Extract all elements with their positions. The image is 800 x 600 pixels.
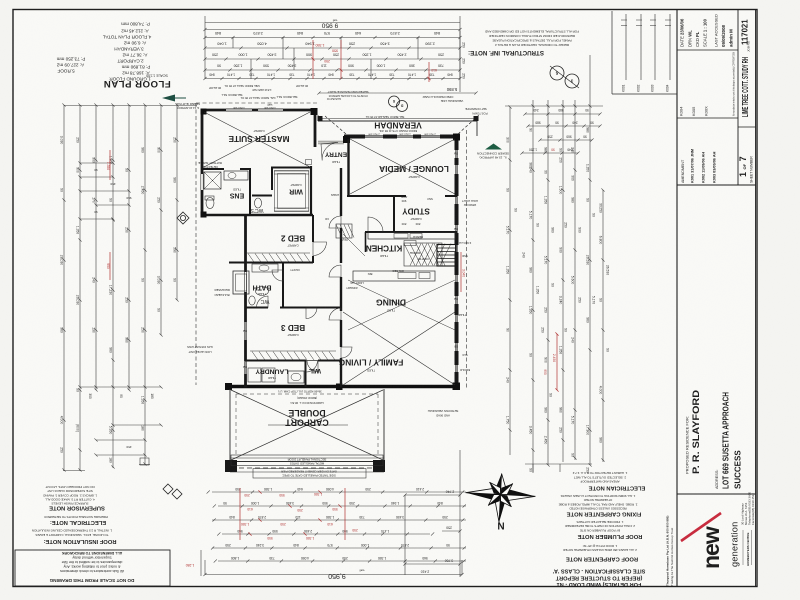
kitchen island	[353, 271, 435, 281]
divider above logo section	[677, 493, 756, 495]
gate band rects	[231, 455, 383, 466]
hall east wall lower	[340, 358, 342, 387]
bath east wall	[282, 262, 284, 308]
top dimension block	[203, 16, 477, 95]
master suite north wall	[201, 109, 227, 112]
carport inner dashed	[236, 393, 378, 395]
divider above sheet number	[738, 126, 756, 128]
divider under amendments	[677, 184, 756, 186]
wir west wall	[271, 168, 273, 190]
diamond pair bottom left	[163, 484, 182, 499]
verandah posts	[318, 116, 323, 121]
detail bubble SD near verandah	[389, 96, 408, 112]
green sewer arrow left	[162, 95, 175, 102]
areas legend (upside-down text block)	[102, 21, 151, 81]
wir east wall	[310, 166, 312, 215]
lounge west wall	[347, 139, 349, 197]
bed2 south wall / robe	[229, 262, 313, 264]
bath tub	[233, 271, 249, 294]
west wall windows	[243, 322, 245, 340]
driveway edges	[230, 471, 384, 473]
wc s toilet	[255, 198, 262, 208]
south wall	[227, 385, 459, 389]
ens wc	[206, 198, 214, 209]
bath basin	[256, 287, 269, 296]
hall east wall mid	[340, 228, 342, 263]
right dimension block	[403, 55, 609, 577]
revision scale table left of title block	[611, 11, 613, 94]
bed2 east wall	[312, 215, 314, 242]
lounge front windows	[365, 134, 383, 136]
entry door arc	[321, 142, 339, 160]
bed3 south wall	[245, 360, 306, 362]
bath vanity	[252, 264, 278, 272]
wir shelves	[274, 170, 309, 172]
wc toilet	[249, 296, 255, 305]
hall east wall upper	[340, 168, 342, 216]
carport X brace	[231, 390, 383, 460]
divider under K00x row	[677, 117, 738, 119]
bottom dimension block	[203, 487, 466, 579]
entry D symbol	[306, 160, 312, 165]
detail bubbles right of structural note	[550, 66, 579, 88]
entry door sill	[318, 140, 344, 142]
left dimension block	[60, 103, 201, 576]
compass rose	[464, 472, 536, 525]
green sewer triangle	[485, 144, 502, 150]
bottom-right small dim block	[459, 450, 461, 577]
laundry trough	[288, 371, 304, 383]
study west wall	[393, 196, 395, 233]
master block south wall	[201, 214, 313, 217]
carport outline	[229, 389, 231, 462]
entry east wall	[314, 110, 317, 147]
wc s walls	[252, 195, 272, 197]
bath south wall	[245, 307, 268, 309]
corner pantry hatch	[404, 243, 442, 266]
kitchen fridge recess	[404, 241, 416, 246]
red right	[556, 334, 558, 390]
ens west window	[200, 174, 202, 190]
diamond symbol left	[177, 212, 189, 224]
bed3 robe band	[250, 350, 336, 352]
title block inner column line	[737, 10, 739, 186]
verandah hip dashes	[458, 115, 479, 134]
verandah sub-dims top right	[525, 113, 600, 115]
carport ridge	[268, 424, 348, 426]
gate dashed line	[239, 467, 372, 469]
laundry appliance	[248, 368, 261, 382]
east wall windows	[454, 150, 456, 158]
bed2 robe band	[246, 252, 310, 254]
pantry shelf unit dark	[437, 245, 456, 267]
kitchen west stub	[365, 232, 367, 252]
wir rect	[275, 171, 309, 212]
verandah beam	[318, 120, 477, 122]
kitchen bench top	[368, 233, 455, 240]
linen closet hatch	[336, 224, 352, 238]
ens vanity	[224, 171, 248, 180]
master suite west wall	[201, 109, 204, 175]
title block left border	[676, 10, 678, 587]
bath west window	[243, 272, 245, 292]
carport piers	[225, 460, 237, 472]
ens east wall	[249, 169, 251, 214]
new generation logo red slash	[681, 513, 721, 541]
laundry/wil divider	[305, 360, 307, 387]
ens north wall	[203, 168, 224, 170]
east wall piers	[455, 135, 459, 151]
study-kitchen door arc	[368, 217, 383, 232]
lounge front wall piers	[344, 135, 365, 139]
dining diagonals	[348, 280, 455, 330]
title block right inner line	[755, 10, 757, 587]
kitchen north wall	[365, 231, 457, 233]
divider under date block	[677, 49, 738, 51]
ens shower	[204, 172, 221, 189]
do not scale box	[15, 550, 170, 586]
roof legend	[56, 56, 85, 73]
west wall lower	[244, 214, 247, 272]
master north windows	[226, 108, 252, 110]
lounge south wall	[347, 195, 406, 197]
wir north wall	[271, 167, 312, 169]
verandah edge line	[318, 118, 477, 120]
